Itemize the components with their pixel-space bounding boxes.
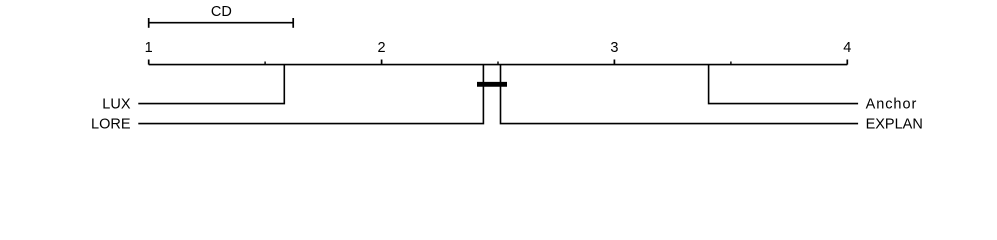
axis line [149, 64, 848, 66]
minor tick 3.5 [730, 62, 732, 65]
major tick 2 [381, 60, 383, 65]
LUX connector line [138, 65, 284, 104]
major tick 3 [613, 60, 615, 65]
major tick 4 [846, 60, 848, 65]
LORE connector line [138, 65, 483, 124]
minor tick 1.5 [264, 62, 266, 65]
CD left end tick [148, 18, 150, 28]
EXPLAN connector line [501, 65, 859, 124]
svg-text:EXPLAN: EXPLAN [866, 117, 923, 133]
major tick 1 [148, 60, 150, 65]
svg-text:LORE: LORE [91, 117, 131, 133]
minor tick 2.5 [497, 62, 499, 65]
svg-text:4: 4 [843, 40, 851, 56]
svg-text:CD: CD [211, 4, 232, 20]
clique bar LORE-EXPLAN [477, 82, 507, 87]
svg-text:2: 2 [378, 40, 386, 56]
svg-text:1: 1 [145, 40, 153, 56]
CD interval bar [149, 22, 294, 24]
svg-text:3: 3 [610, 40, 618, 56]
CD right end tick [292, 18, 294, 28]
svg-text:Anchor: Anchor [866, 97, 918, 113]
Anchor connector line [709, 65, 859, 104]
svg-text:LUX: LUX [102, 97, 131, 113]
